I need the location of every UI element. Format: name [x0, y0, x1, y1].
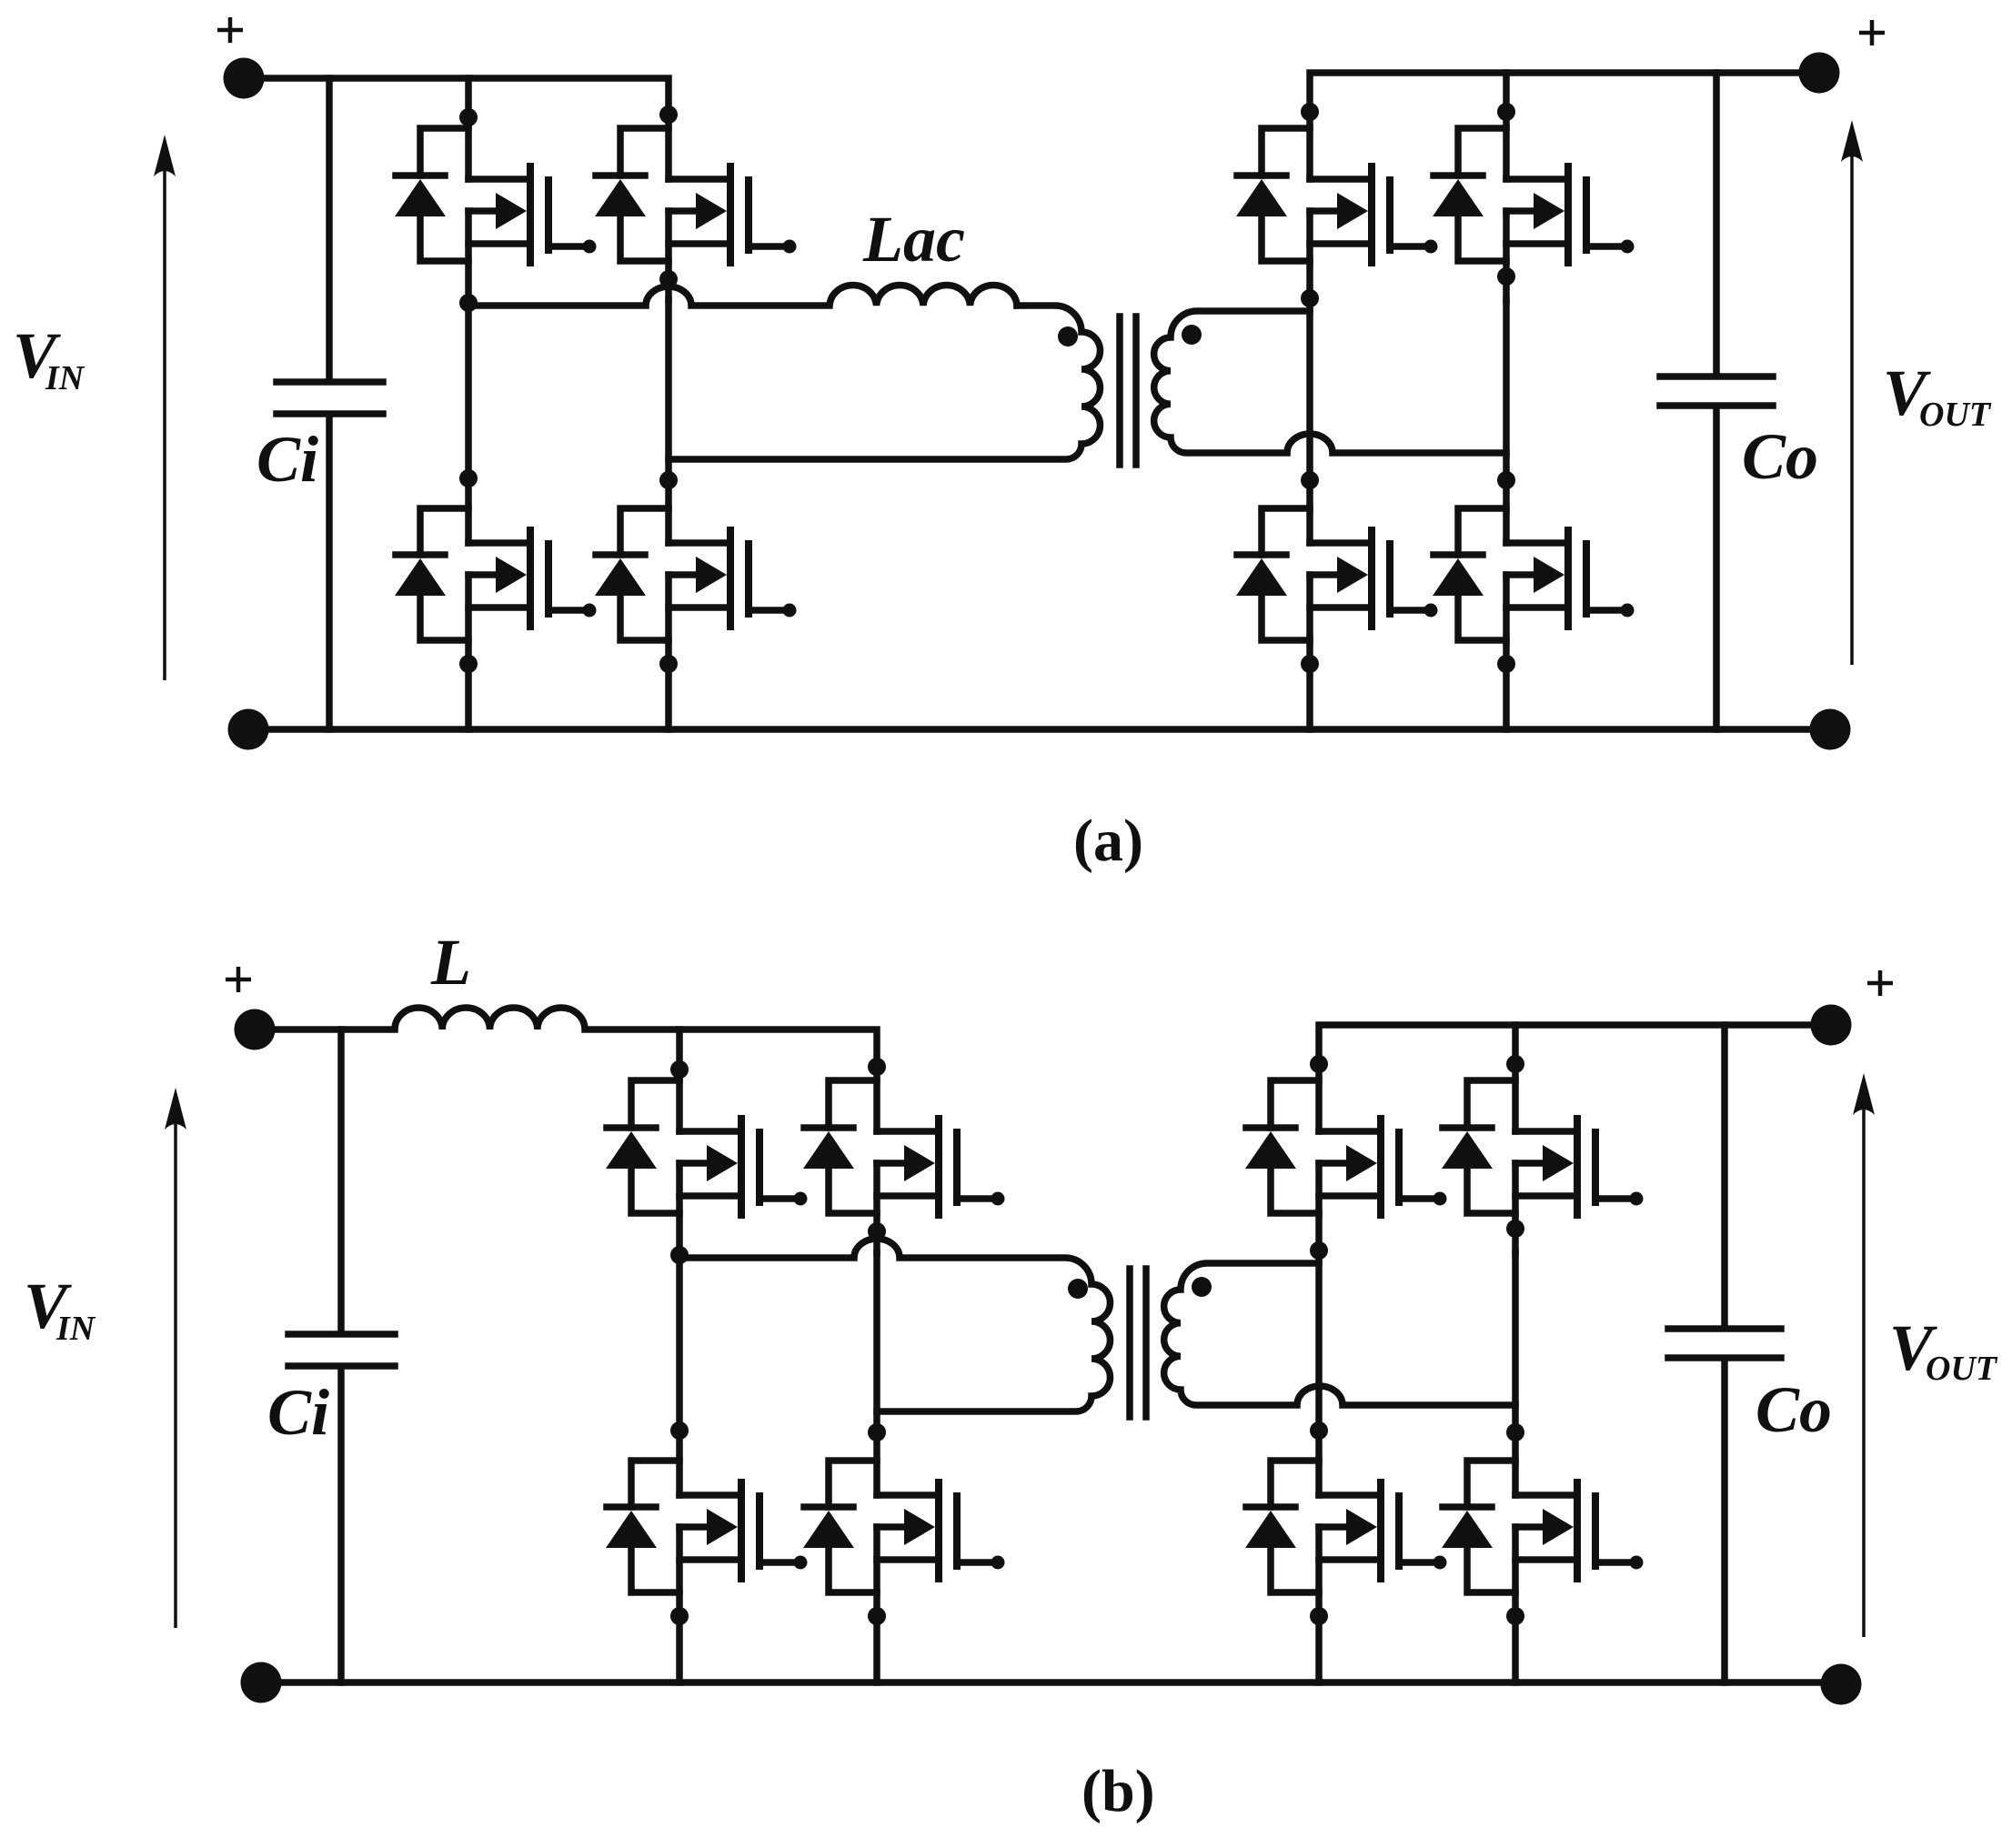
polarity + mark at Vout terminal (b) [1867, 970, 1893, 996]
svg-text:Ci: Ci [257, 423, 318, 496]
transistor S3b lower-left of input bridge (b) (MOSFET with body diode) [606, 1461, 808, 1616]
arrow: Vin voltage annotation (a) [163, 162, 166, 680]
svg-text:L: L [430, 926, 471, 999]
transistor S7a lower-left of output bridge (a) (MOSFET with body diode) [1236, 508, 1438, 664]
node: Vout- output terminal (b) [1821, 1664, 1862, 1705]
wire: output leg2 to bottom rail (a) [1503, 664, 1510, 729]
junction: S1a drain node (a) [459, 108, 478, 126]
wire: leg1 mid vertical, output bridge (a) [1306, 300, 1313, 543]
wire: output leg1 to bottom rail (b) [1315, 1616, 1323, 1682]
junction: S8b drain node (b) [1506, 1423, 1524, 1441]
polarity + mark at Vin terminal (b) [226, 967, 251, 992]
svg-text:IN: IN [45, 359, 86, 397]
junction: output bridge node C (b) [1310, 1241, 1328, 1260]
wire: leg1 mid vertical, output bridge (b) [1315, 1252, 1323, 1495]
wire: output leg1 to bottom rail (a) [1306, 664, 1313, 729]
svg-text:Co: Co [1742, 420, 1818, 493]
junction: S7b drain node (b) [1310, 1421, 1328, 1440]
wire: leg1 drain drop from top rail (a) [465, 78, 472, 179]
node: Vin+ input terminal (b) [235, 1009, 276, 1050]
junction: S5a drain node (a) [1301, 103, 1319, 121]
junction: S8a drain node (a) [1497, 471, 1515, 489]
svg-text:Co: Co [1755, 1373, 1832, 1446]
capacitor Co (b) [1668, 1025, 1781, 1682]
transistor S1a upper-left of input bridge (a) (MOSFET with body diode) [395, 128, 597, 300]
svg-text:(b): (b) [1081, 1758, 1155, 1824]
junction: S3b drain node (b) [670, 1421, 689, 1440]
node: Vout- output terminal (a) [1810, 709, 1851, 750]
junction: output bridge node D (a) [1497, 267, 1515, 286]
transistor S6a upper-right of output bridge (a) (MOSFET with body diode) [1433, 128, 1635, 300]
junction: S6a drain node (a) [1497, 103, 1515, 121]
transistor S2a upper-right of input bridge (a) (MOSFET with body diode) [595, 128, 797, 300]
junction: S8a source node (a) [1497, 655, 1515, 673]
node: Vin- input terminal (a) [228, 709, 269, 750]
junction: S4a drain node (a) [659, 471, 678, 489]
junction: S7a drain node (a) [1301, 471, 1319, 489]
transistor S7b lower-left of output bridge (b) (MOSFET with body diode) [1245, 1461, 1447, 1616]
junction: S4a source node (a) [659, 655, 678, 673]
junction: S3b source node (b) [670, 1607, 689, 1625]
transistor S4b lower-right of input bridge (b) (MOSFET with body diode) [803, 1461, 1005, 1616]
transformer T primary winding (a) [669, 306, 1100, 459]
junction: input bridge node B (a) [659, 270, 678, 288]
arrow: Vout voltage annotation (b) [1862, 1100, 1866, 1637]
node: Vout+ output terminal (b) [1811, 1005, 1852, 1046]
wire: top-left rail (b) with series inductor L [255, 1008, 877, 1131]
svg-text:IN: IN [55, 1310, 96, 1348]
transformer T core (a) [1120, 316, 1136, 465]
transistor S6b upper-right of output bridge (b) (MOSFET with body diode) [1442, 1080, 1644, 1252]
wire: leg2 drain drop from top-right rail (a) [1503, 73, 1510, 179]
transistor S5a upper-left of output bridge (a) (MOSFET with body diode) [1236, 128, 1438, 300]
junction: input bridge node A (a) [459, 294, 478, 312]
polarity dot: transformer primary (a) [1058, 326, 1078, 346]
wire: leg1 to bottom rail (a) [465, 664, 472, 729]
junction: S7a source node (a) [1301, 655, 1319, 673]
transistor S3a lower-left of input bridge (a) (MOSFET with body diode) [395, 508, 597, 664]
svg-text:OUT: OUT [1926, 1350, 1998, 1388]
svg-text:Ci: Ci [267, 1376, 329, 1449]
wire: bridge output A with crossover hop (b) [679, 1239, 1111, 1411]
capacitor Ci (b) [288, 1029, 395, 1682]
wire: bottom rail (b) [261, 1679, 1841, 1686]
arrow: Vout voltage annotation (a) [1850, 147, 1854, 665]
node: Vin+ input terminal (a) [224, 58, 265, 99]
wire: top-left rail (a) from Vin+ to bridge leg2 corner [244, 78, 669, 179]
transistor S1b upper-left of input bridge (b) (MOSFET with body diode) [606, 1080, 808, 1252]
transformer T secondary winding (b) [1164, 1263, 1515, 1405]
junction: input bridge node B (b) [868, 1222, 886, 1240]
junction: S8b source node (b) [1506, 1607, 1524, 1625]
capacitor Co (a) [1660, 73, 1773, 729]
junction: S2b drain node (b) [868, 1058, 886, 1076]
wire: leg2 mid vertical, output bridge (a) [1503, 300, 1510, 543]
wire: leg2 mid vertical, output bridge (b) [1512, 1252, 1519, 1495]
svg-text:OUT: OUT [1919, 396, 1992, 434]
transistor S5b upper-left of output bridge (b) (MOSFET with body diode) [1245, 1080, 1447, 1252]
wire: output leg2 to bottom rail (b) [1512, 1616, 1519, 1682]
junction: output bridge node C (a) [1301, 289, 1319, 307]
polarity dot: transformer secondary (a) [1182, 325, 1202, 345]
wire: leg2 to bottom rail (a) [665, 664, 672, 729]
wire: top-right rail (b) from bridge leg1 corner to Vout+ [1319, 1025, 1831, 1131]
junction: output bridge node D (b) [1506, 1220, 1524, 1238]
svg-text:(a): (a) [1073, 808, 1143, 874]
transformer T secondary winding (a) [1154, 311, 1506, 453]
polarity + mark at Vout terminal (a) [1859, 20, 1885, 45]
transistor S2b upper-right of input bridge (b) (MOSFET with body diode) [803, 1080, 1005, 1252]
arrow: Vin voltage annotation (b) [174, 1115, 177, 1628]
transistor S8b lower-right of output bridge (b) (MOSFET with body diode) [1442, 1461, 1644, 1616]
node: Vin- input terminal (b) [241, 1662, 282, 1703]
junction: S4b drain node (b) [868, 1423, 886, 1441]
wire: leg2 mid vertical, input bridge (b) [873, 1252, 880, 1495]
transistor S8a lower-right of output bridge (a) (MOSFET with body diode) [1433, 508, 1635, 664]
wire: top-right rail (a) from bridge leg1 corner to Vout+ [1310, 73, 1819, 179]
wire: bottom rail (a) [248, 726, 1830, 733]
wire: leg1 mid vertical, input bridge (b) [676, 1252, 683, 1495]
capacitor Ci (a) [277, 78, 383, 729]
svg-text:Lac: Lac [862, 203, 965, 276]
wire: leg1 drain drop from top rail (b) [676, 1029, 683, 1131]
wire: leg2 drain drop from top-right rail (b) [1512, 1025, 1519, 1131]
junction: S1b drain node (b) [670, 1060, 689, 1079]
polarity dot: transformer secondary (b) [1192, 1277, 1212, 1297]
wire: leg1 to bottom rail (b) [676, 1616, 683, 1682]
junction: S2a drain node (a) [659, 105, 678, 124]
wire: leg2 mid vertical, input bridge (a) [665, 300, 672, 543]
node: Vout+ output terminal (a) [1799, 53, 1840, 94]
transformer T core (b) [1130, 1269, 1146, 1417]
wire: leg2 to bottom rail (b) [873, 1616, 880, 1682]
junction: S5b drain node (b) [1310, 1055, 1328, 1073]
junction: input bridge node A (b) [670, 1246, 689, 1264]
junction: S6b drain node (b) [1506, 1055, 1524, 1073]
junction: S3a drain node (a) [459, 469, 478, 487]
polarity + mark at Vin terminal (a) [217, 17, 243, 43]
inductor Lac (a) [468, 285, 1017, 306]
junction: S4b source node (b) [868, 1607, 886, 1625]
junction: S3a source node (a) [459, 655, 478, 673]
transistor S4a lower-right of input bridge (a) (MOSFET with body diode) [595, 508, 797, 664]
wire: leg1 mid vertical, input bridge (a) [465, 300, 472, 543]
junction: S7b source node (b) [1310, 1607, 1328, 1625]
polarity dot: transformer primary (b) [1068, 1279, 1088, 1299]
